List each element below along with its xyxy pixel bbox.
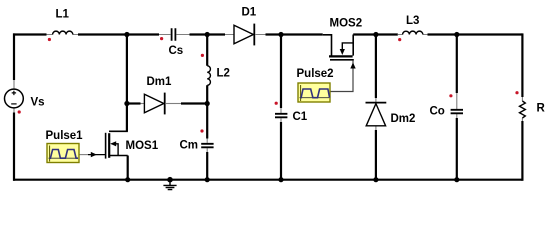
- wire top bus D1 to MOS2: [266, 33, 323, 35]
- capacitor C1: [275, 33, 308, 180]
- ground: [163, 177, 176, 190]
- svg-text:L2: L2: [217, 68, 230, 80]
- node junction C1 bottom: [278, 177, 283, 182]
- transistor MOS2: [323, 18, 362, 60]
- svg-text:D1: D1: [242, 7, 257, 19]
- diode D1: [225, 7, 266, 46]
- probe dot R: [515, 91, 518, 94]
- node junction top of MOS1 branch: [124, 32, 129, 37]
- svg-text:Dm1: Dm1: [147, 76, 173, 88]
- wire right rail lower: [521, 121, 523, 181]
- transistor MOS1: [106, 131, 159, 158]
- svg-text:L1: L1: [56, 9, 70, 21]
- wire top bus MOS2 to L3: [353, 33, 398, 35]
- node junction top of Co branch: [454, 32, 459, 37]
- capacitor Cs: [159, 28, 190, 57]
- svg-text:Pulse1: Pulse1: [46, 130, 84, 142]
- wire bottom bus: [13, 179, 522, 181]
- capacitor Co: [430, 33, 464, 180]
- probe dot Vs: [18, 110, 21, 113]
- resistor R: [520, 97, 546, 121]
- svg-text:R: R: [537, 103, 546, 115]
- wire gate lead MOS2 from Pulse2: [331, 60, 356, 91]
- wire top bus L1 to Cs: [78, 33, 159, 35]
- svg-text:Co: Co: [430, 106, 445, 118]
- svg-text:MOS2: MOS2: [330, 18, 363, 30]
- capacitor Cm: [180, 104, 214, 181]
- svg-text:Cm: Cm: [180, 140, 199, 152]
- node junction Dm1 left: [124, 101, 129, 106]
- diode Dm1: [127, 76, 207, 114]
- source Vs: [5, 80, 45, 113]
- probe dot L1: [48, 38, 51, 41]
- node junction Co bottom: [454, 177, 459, 182]
- wire MOS1 source to bottom bus: [127, 156, 129, 181]
- node junction Dm2 bottom: [373, 177, 378, 182]
- wire top bus Cs to D1: [190, 33, 226, 35]
- node junction top of C1 branch: [278, 32, 283, 37]
- probe dot C1: [275, 102, 278, 105]
- svg-text:L3: L3: [406, 15, 419, 27]
- wire left rail upper: [13, 33, 15, 80]
- wire right rail upper: [521, 33, 523, 97]
- svg-text:Cs: Cs: [169, 45, 184, 57]
- wire top bus L3 to right corner: [428, 33, 523, 35]
- wire MOS1 branch drain vertical: [126, 33, 128, 131]
- probe dot Co: [449, 94, 452, 97]
- probe dot L2: [201, 54, 204, 57]
- svg-text:Vs: Vs: [31, 97, 45, 109]
- probe dot Cm: [200, 129, 203, 132]
- node junction Dm1 right on L2 branch: [205, 101, 210, 106]
- svg-text:Pulse2: Pulse2: [297, 68, 334, 80]
- svg-text:MOS1: MOS1: [126, 140, 159, 152]
- probe dot Cs: [160, 37, 163, 40]
- svg-text:C1: C1: [293, 111, 308, 123]
- inductor L3: [398, 15, 428, 35]
- node junction top of Dm2 branch: [373, 32, 378, 37]
- controller Pulse2: [297, 68, 334, 102]
- node junction top of L2 branch: [205, 32, 210, 37]
- controller Pulse1: [46, 130, 84, 163]
- wire gate lead MOS1 from Pulse1: [79, 152, 105, 157]
- wire left rail lower: [13, 113, 15, 181]
- wire top bus left segment: [13, 33, 47, 35]
- inductor L1: [47, 9, 79, 35]
- node junction MOS1 source bottom: [125, 177, 130, 182]
- inductor L2: [207, 33, 230, 103]
- node junction Cm bottom: [205, 177, 210, 182]
- svg-text:Dm2: Dm2: [391, 113, 416, 125]
- diode Dm2: [366, 33, 416, 180]
- probe dot L3: [398, 38, 401, 41]
